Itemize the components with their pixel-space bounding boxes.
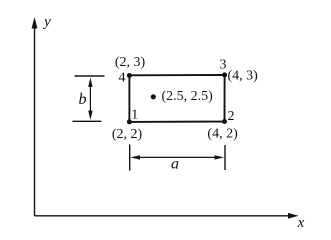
vertex dot 4 (2,3) (127, 73, 132, 78)
svg-text:4: 4 (119, 71, 126, 86)
svg-text:(2.5, 2.5): (2.5, 2.5) (162, 89, 214, 104)
dimension b arrow (88, 78, 92, 121)
dimension a arrow (131, 155, 225, 159)
rectangle (129, 75, 224, 122)
y-axis (32, 17, 38, 216)
x-axis (35, 213, 299, 219)
svg-text:2: 2 (228, 109, 235, 124)
svg-text:(4, 2): (4, 2) (207, 126, 238, 141)
svg-text:(2, 2): (2, 2) (112, 127, 143, 142)
svg-text:3: 3 (220, 57, 227, 72)
dimension a extension tick left (129, 145, 131, 171)
svg-text:y: y (42, 14, 51, 30)
vertex dot 2 (4,2) (222, 119, 227, 124)
svg-text:x: x (297, 215, 305, 231)
dimension b extension tick top (75, 75, 105, 77)
svg-text:1: 1 (131, 107, 138, 122)
dimension a extension tick right (224, 145, 226, 170)
svg-text:a: a (171, 156, 179, 173)
dimension b extension tick bottom (73, 120, 102, 122)
svg-text:b: b (79, 91, 87, 108)
svg-text:(2, 3): (2, 3) (115, 55, 146, 70)
center point (2.5,2.5) (151, 94, 156, 99)
vertex dot 1 (2,2) (127, 119, 132, 124)
svg-text:(4, 3): (4, 3) (228, 69, 259, 84)
vertex dot 3 (4,3) (222, 72, 227, 77)
